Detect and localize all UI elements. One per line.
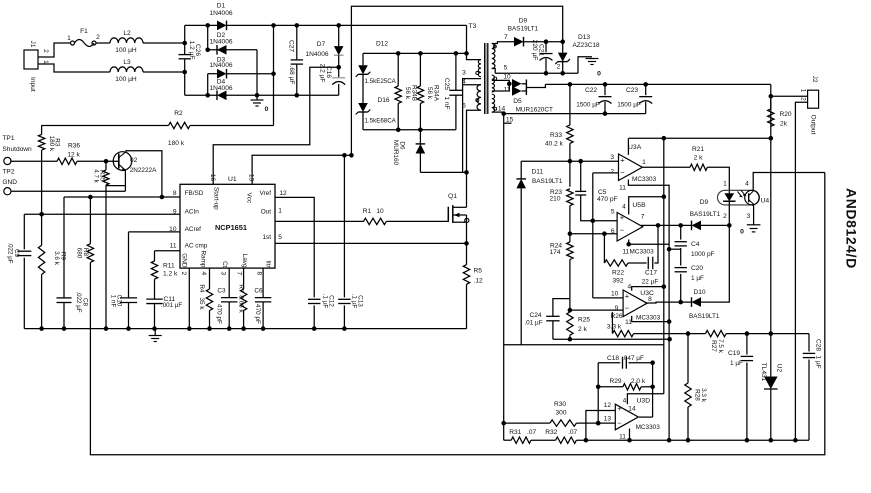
svg-text:210: 210 <box>549 196 560 203</box>
svg-text:4: 4 <box>622 204 626 211</box>
svg-text:1 nF: 1 nF <box>443 96 450 109</box>
svg-text:1 nF: 1 nF <box>110 295 117 308</box>
svg-text:+: + <box>625 291 630 300</box>
svg-text:ACref: ACref <box>185 226 202 233</box>
svg-text:R29: R29 <box>609 378 621 385</box>
svg-text:MC3303: MC3303 <box>636 424 661 431</box>
svg-text:3.3 k: 3.3 k <box>700 388 707 403</box>
svg-text:11: 11 <box>619 184 626 191</box>
svg-text:3: 3 <box>610 154 614 161</box>
svg-text:D11: D11 <box>532 169 544 176</box>
svg-text:1 µF: 1 µF <box>815 355 822 368</box>
svg-text:1 µF: 1 µF <box>730 360 743 367</box>
svg-text:Output: Output <box>809 115 816 135</box>
svg-text:1: 1 <box>723 181 727 188</box>
svg-text:680: 680 <box>76 248 83 259</box>
svg-text:NCP1651: NCP1651 <box>215 223 247 232</box>
svg-text:FB/SD: FB/SD <box>185 190 204 197</box>
svg-text:470 pF: 470 pF <box>597 196 618 203</box>
svg-text:2.0 k: 2.0 k <box>631 378 646 385</box>
svg-text:10: 10 <box>376 208 384 215</box>
svg-text:Iltr: Iltr <box>264 260 271 268</box>
svg-text:2: 2 <box>96 34 100 41</box>
svg-text:1.2 k: 1.2 k <box>163 271 178 278</box>
svg-text:2.2 µF: 2.2 µF <box>319 64 326 83</box>
svg-text:12: 12 <box>279 190 287 197</box>
svg-text:7: 7 <box>504 34 508 41</box>
svg-text:100 µH: 100 µH <box>115 76 137 83</box>
svg-text:0: 0 <box>265 106 269 113</box>
svg-text:392: 392 <box>612 278 623 285</box>
svg-text:R28: R28 <box>694 389 701 401</box>
svg-text:−: − <box>620 168 625 177</box>
svg-text:D16: D16 <box>377 97 389 104</box>
svg-text:2: 2 <box>610 169 614 176</box>
svg-text:C24: C24 <box>529 312 541 319</box>
svg-text:U3C: U3C <box>640 290 654 297</box>
svg-text:3.3 k: 3.3 k <box>607 324 622 331</box>
svg-text:R27: R27 <box>710 340 717 352</box>
svg-text:Ct: Ct <box>221 261 228 268</box>
svg-text:.1 µF: .1 µF <box>351 294 358 309</box>
svg-text:11: 11 <box>170 243 177 250</box>
svg-text:11: 11 <box>622 248 629 255</box>
svg-text:8: 8 <box>648 296 652 303</box>
svg-text:R35: R35 <box>99 170 106 182</box>
svg-text:U3A: U3A <box>628 144 642 151</box>
svg-text:+: + <box>620 156 625 165</box>
svg-text:1000 pF: 1000 pF <box>691 251 715 258</box>
svg-text:10: 10 <box>611 291 619 298</box>
svg-text:C27: C27 <box>288 40 295 52</box>
svg-text:5: 5 <box>278 234 282 241</box>
svg-text:U2: U2 <box>776 364 783 373</box>
svg-text:TL431: TL431 <box>760 363 767 382</box>
svg-text:−: − <box>625 303 630 312</box>
svg-text:D1: D1 <box>217 3 226 10</box>
svg-text:22 µF: 22 µF <box>642 279 659 286</box>
svg-text:R11: R11 <box>163 262 175 269</box>
svg-text:4: 4 <box>745 181 749 188</box>
svg-text:100 µH: 100 µH <box>115 47 137 54</box>
svg-text:U4: U4 <box>761 198 770 205</box>
svg-text:F1: F1 <box>80 28 88 35</box>
svg-text:D9: D9 <box>700 199 709 206</box>
svg-text:L2: L2 <box>123 30 131 37</box>
svg-text:D7: D7 <box>317 41 326 48</box>
svg-text:1 µF: 1 µF <box>691 275 704 282</box>
svg-text:6: 6 <box>462 103 466 110</box>
svg-text:16: 16 <box>209 174 216 182</box>
svg-text:R25: R25 <box>578 316 590 323</box>
svg-text:R20: R20 <box>780 111 792 118</box>
svg-text:8.66 k: 8.66 k <box>238 295 245 313</box>
svg-text:U5B: U5B <box>632 202 646 209</box>
svg-text:BAS19LT1: BAS19LT1 <box>689 313 720 320</box>
svg-text:4: 4 <box>623 398 627 405</box>
svg-text:ACIn: ACIn <box>185 209 200 216</box>
svg-text:MC3303: MC3303 <box>632 176 657 183</box>
svg-text:R26: R26 <box>610 313 622 320</box>
svg-text:10: 10 <box>503 73 511 80</box>
svg-text:7: 7 <box>641 214 645 221</box>
svg-text:1N4006: 1N4006 <box>305 51 328 58</box>
svg-text:Shutdown: Shutdown <box>2 146 32 153</box>
svg-text:U1: U1 <box>228 176 237 183</box>
svg-text:02: 02 <box>130 157 138 164</box>
svg-text:AND8124/D: AND8124/D <box>844 188 860 269</box>
svg-text:56 k: 56 k <box>426 87 433 100</box>
svg-text:2: 2 <box>557 64 561 71</box>
svg-text:C22: C22 <box>585 87 597 94</box>
svg-text:D9: D9 <box>519 18 528 25</box>
svg-text:1N4006: 1N4006 <box>209 38 232 45</box>
svg-text:4: 4 <box>200 271 207 275</box>
svg-text:14: 14 <box>628 406 636 413</box>
svg-text:174: 174 <box>549 249 560 256</box>
svg-text:12 k: 12 k <box>67 152 80 159</box>
svg-text:R1: R1 <box>363 208 372 215</box>
svg-text:TP2: TP2 <box>2 169 14 176</box>
svg-text:1N4006: 1N4006 <box>209 85 232 92</box>
svg-text:3: 3 <box>462 70 466 77</box>
svg-text:0: 0 <box>740 229 744 236</box>
svg-text:300: 300 <box>555 410 566 417</box>
svg-text:U3D: U3D <box>637 397 651 404</box>
svg-text:MC3303: MC3303 <box>636 314 661 321</box>
svg-text:C6: C6 <box>254 288 263 295</box>
svg-text:5: 5 <box>611 208 615 215</box>
svg-text:.1 µF: .1 µF <box>322 294 329 309</box>
svg-text:BAS19LT1: BAS19LT1 <box>508 26 539 33</box>
svg-text:.07: .07 <box>527 429 536 436</box>
svg-text:1: 1 <box>278 208 282 215</box>
svg-text:Vref: Vref <box>260 190 272 197</box>
svg-text:180 k: 180 k <box>168 140 185 147</box>
svg-text:2: 2 <box>723 213 727 220</box>
svg-text:D13: D13 <box>578 34 590 41</box>
svg-text:4: 4 <box>627 283 631 290</box>
svg-text:9: 9 <box>615 305 619 312</box>
svg-text:2k: 2k <box>780 121 788 128</box>
svg-text:11: 11 <box>619 434 626 441</box>
svg-text:1: 1 <box>642 159 646 166</box>
svg-text:.68 µF: .68 µF <box>288 66 295 85</box>
svg-text:1.2 µF: 1.2 µF <box>188 41 195 60</box>
svg-text:R31: R31 <box>509 429 521 436</box>
svg-text:.022 µF: .022 µF <box>7 242 14 263</box>
svg-text:D10: D10 <box>693 289 705 296</box>
svg-text:8: 8 <box>255 271 262 275</box>
svg-text:13: 13 <box>604 416 612 423</box>
svg-text:7: 7 <box>235 271 242 275</box>
svg-text:15: 15 <box>506 117 514 124</box>
svg-text:C19: C19 <box>728 350 740 357</box>
svg-text:13: 13 <box>248 174 255 182</box>
svg-text:R3: R3 <box>54 138 61 147</box>
svg-text:5: 5 <box>504 65 508 72</box>
svg-text:2: 2 <box>42 49 49 53</box>
svg-text:R5: R5 <box>474 268 483 275</box>
svg-text:Vcc: Vcc <box>246 193 253 204</box>
svg-text:Out: Out <box>261 209 272 216</box>
svg-text:+: + <box>617 404 622 413</box>
svg-text:D5: D5 <box>513 98 522 105</box>
svg-text:C25: C25 <box>443 78 450 90</box>
svg-text:R8: R8 <box>82 248 89 257</box>
svg-text:Q1: Q1 <box>448 193 457 200</box>
svg-text:1: 1 <box>800 89 807 93</box>
svg-text:.022 µF: .022 µF <box>75 291 82 312</box>
svg-text:R7: R7 <box>238 284 245 293</box>
svg-text:R22: R22 <box>612 270 624 277</box>
svg-text:C17: C17 <box>645 270 657 277</box>
svg-text:R33: R33 <box>550 132 562 139</box>
svg-text:GND: GND <box>181 253 188 268</box>
svg-text:470 pF: 470 pF <box>216 304 223 324</box>
svg-text:MUR1620CT: MUR1620CT <box>516 107 553 114</box>
svg-text:1.5kE25CA: 1.5kE25CA <box>365 78 397 85</box>
svg-text:2: 2 <box>180 271 187 275</box>
svg-text:470 pF: 470 pF <box>254 304 261 324</box>
svg-text:MUR160: MUR160 <box>392 140 399 166</box>
svg-text:AC cmp: AC cmp <box>185 243 208 250</box>
svg-text:2 k: 2 k <box>578 326 587 333</box>
svg-text:+: + <box>620 213 625 222</box>
svg-text:C4: C4 <box>691 241 700 248</box>
svg-text:4.7 k: 4.7 k <box>93 169 100 183</box>
svg-text:12: 12 <box>604 402 612 409</box>
svg-text:1500 µF: 1500 µF <box>576 102 600 109</box>
svg-text:4: 4 <box>462 78 466 85</box>
svg-text:C20: C20 <box>691 265 703 272</box>
svg-text:1N4006: 1N4006 <box>209 62 232 69</box>
svg-text:Input: Input <box>29 77 36 92</box>
svg-text:BAS19LT1: BAS19LT1 <box>532 178 563 185</box>
svg-text:R32: R32 <box>545 429 557 436</box>
svg-text:Lavg: Lavg <box>241 254 248 268</box>
svg-text:2N2222A: 2N2222A <box>130 167 157 174</box>
svg-text:C5: C5 <box>598 189 607 196</box>
svg-text:T3: T3 <box>469 23 477 30</box>
svg-text:1: 1 <box>67 35 71 42</box>
svg-text:40.2 k: 40.2 k <box>545 140 564 147</box>
svg-text:2 k: 2 k <box>694 155 703 162</box>
svg-text:MC3303: MC3303 <box>630 248 655 255</box>
svg-text:J1: J1 <box>29 41 36 48</box>
svg-text:R30: R30 <box>554 401 566 408</box>
svg-text:R4: R4 <box>198 284 205 293</box>
svg-text:3: 3 <box>219 271 226 275</box>
svg-text:C28: C28 <box>815 339 822 351</box>
svg-text:3.6 k: 3.6 k <box>53 251 60 266</box>
svg-text:56 k: 56 k <box>404 87 411 100</box>
svg-text:1st: 1st <box>262 234 271 241</box>
svg-text:R2: R2 <box>174 110 183 117</box>
svg-text:GND: GND <box>2 179 17 186</box>
svg-text:TP1: TP1 <box>2 135 14 142</box>
svg-text:.07: .07 <box>568 429 577 436</box>
svg-text:2: 2 <box>800 97 807 101</box>
svg-text:L3: L3 <box>123 59 131 66</box>
svg-text:220 µF: 220 µF <box>531 40 538 61</box>
svg-text:Ramp: Ramp <box>200 250 207 267</box>
svg-text:1500 µF: 1500 µF <box>617 102 641 109</box>
svg-text:.047 µF: .047 µF <box>622 355 644 362</box>
svg-text:R21: R21 <box>692 146 704 153</box>
svg-text:J2: J2 <box>811 76 818 83</box>
svg-text:.12: .12 <box>474 278 483 285</box>
svg-text:11: 11 <box>504 87 511 94</box>
svg-text:8: 8 <box>173 190 177 197</box>
svg-text:−: − <box>620 226 625 235</box>
svg-text:1.5kE68CA: 1.5kE68CA <box>365 118 397 125</box>
svg-text:−: − <box>617 418 622 427</box>
svg-text:.001 µF: .001 µF <box>161 302 182 309</box>
svg-text:.01 µF: .01 µF <box>524 320 542 327</box>
svg-text:1N4006: 1N4006 <box>209 10 232 17</box>
svg-text:R36: R36 <box>68 143 80 150</box>
svg-text:C23: C23 <box>626 87 638 94</box>
svg-text:AZ23C18: AZ23C18 <box>573 42 600 49</box>
svg-text:0: 0 <box>597 71 601 78</box>
svg-text:BAS19LT1: BAS19LT1 <box>690 211 721 218</box>
svg-text:3: 3 <box>747 213 751 220</box>
svg-text:7.5 k: 7.5 k <box>717 339 724 354</box>
svg-text:Start-up: Start-up <box>213 187 220 210</box>
svg-text:D12: D12 <box>376 41 388 48</box>
svg-text:C18: C18 <box>607 355 619 362</box>
svg-text:35 k: 35 k <box>198 297 205 310</box>
svg-text:C3: C3 <box>217 288 226 295</box>
